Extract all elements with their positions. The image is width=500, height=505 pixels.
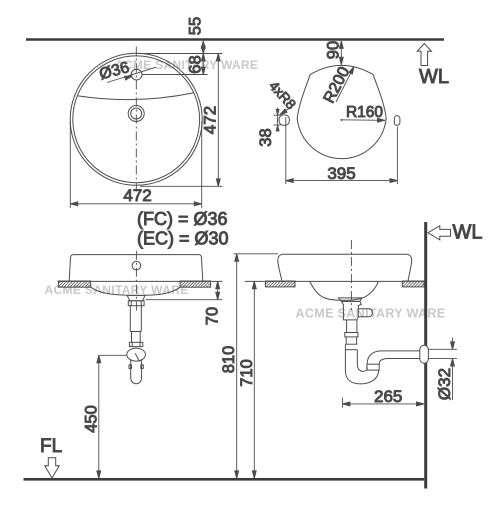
svg-text:4xR8: 4xR8 [266, 78, 299, 112]
basin top view: drain inner [131, 108, 142, 119]
counter hatch right side [402, 281, 424, 287]
drain body side [342, 301, 362, 320]
drain flange front [127, 295, 145, 300]
basin front view: faucet hole [132, 261, 141, 270]
center line side view [350, 240, 352, 310]
svg-text:38: 38 [257, 128, 275, 146]
trap cup ticks [129, 365, 143, 369]
dimension 450 [97, 355, 126, 478]
dimension Ø32 [428, 338, 457, 401]
trap upper pipe side [345, 337, 357, 350]
trap U-bend side [345, 344, 378, 384]
basin profile view: left rim edge [279, 115, 289, 125]
trap nut side [345, 333, 358, 337]
trap cup front [131, 359, 142, 384]
dimension 710 [252, 281, 256, 478]
svg-text:395: 395 [327, 164, 355, 183]
WL arrow left [428, 226, 451, 240]
dimension 38 [274, 108, 281, 132]
trap dip line front [135, 353, 139, 361]
svg-text:472: 472 [123, 186, 151, 205]
dimension 55 [201, 41, 205, 54]
basin profile view: body outline [297, 65, 386, 158]
basin profile view: right rim edge [394, 116, 400, 126]
basin top view: outer rim circle [70, 53, 202, 185]
svg-text:R200: R200 [321, 64, 354, 106]
basin top view: inner rim circle [73, 56, 200, 183]
basin top view: faucet hole [131, 69, 142, 80]
drain flange side [339, 298, 363, 302]
tailpipe side [347, 320, 357, 333]
drain nut front [128, 301, 144, 306]
basin front view: bowl underside [91, 287, 180, 295]
svg-text:265: 265 [374, 387, 402, 406]
dimension 90 [339, 41, 343, 65]
svg-text:90: 90 [324, 41, 342, 59]
trap ball front [127, 348, 146, 361]
svg-text:WL: WL [453, 222, 483, 244]
svg-text:810: 810 [220, 346, 238, 374]
svg-text:R160: R160 [346, 104, 383, 121]
leader R160 [341, 118, 385, 122]
center line front view [135, 251, 137, 312]
dimension 472 vertical [139, 54, 223, 187]
counter line front view [58, 280, 223, 282]
center line vertical top view [135, 47, 137, 192]
overflow stub side [358, 309, 372, 317]
basin top view: interior front arc [77, 93, 194, 100]
leader 4xR8 [279, 106, 294, 117]
basin side view: bowl interior [310, 282, 379, 301]
WL arrow up [417, 44, 431, 66]
basin side view: body [278, 254, 412, 281]
svg-text:(FC) = Ø36: (FC) = Ø36 [137, 209, 228, 229]
dimension 68 [143, 54, 208, 75]
FL arrow down [45, 458, 59, 478]
svg-text:472: 472 [200, 106, 219, 134]
tailpipe front lower [132, 332, 141, 343]
counter hatch left side [266, 281, 296, 287]
svg-text:FL: FL [40, 436, 62, 457]
dimension 395 [286, 117, 398, 184]
wall flange [420, 345, 429, 363]
svg-text:70: 70 [203, 307, 221, 325]
trap outlet elbow side [367, 351, 424, 364]
counter hatch right front [180, 281, 210, 287]
svg-text:Ø32: Ø32 [435, 368, 454, 400]
svg-text:55: 55 [186, 17, 204, 35]
counter hatch left front [58, 281, 90, 287]
leader Ø36 [107, 67, 156, 82]
svg-text:WL: WL [419, 66, 449, 88]
wall line right [424, 222, 427, 489]
basin front view: body [69, 255, 203, 282]
trap lower nut side [367, 364, 379, 370]
svg-text:710: 710 [238, 359, 256, 387]
svg-text:(EC) = Ø30: (EC) = Ø30 [137, 228, 229, 248]
dimension 265 [343, 398, 424, 408]
svg-text:68: 68 [186, 55, 204, 73]
dimension 810 [234, 254, 279, 478]
dimension 472 horizontal [70, 121, 201, 208]
svg-text:450: 450 [82, 405, 100, 433]
trap nut front [129, 342, 142, 346]
wall line WL top [26, 38, 444, 40]
floor line [24, 478, 425, 481]
leader R200 [336, 66, 356, 102]
basin top view: drain outer [128, 106, 144, 122]
tailpipe front upper [130, 306, 141, 332]
counter line side view [245, 280, 424, 282]
dimension 70 [146, 281, 223, 299]
